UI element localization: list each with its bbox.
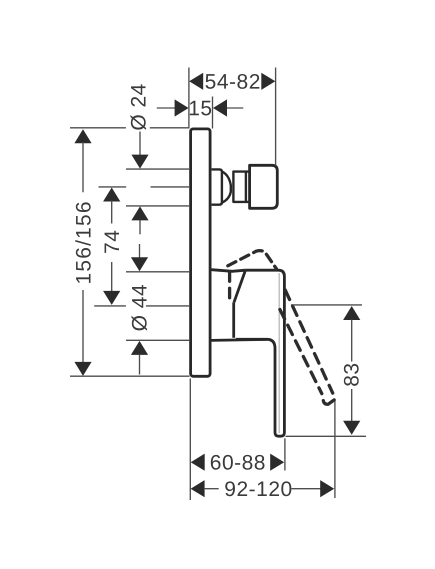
extension line plate face (15 right)	[212, 97, 214, 129]
dimension 83 top arrow	[343, 306, 360, 320]
dimension 15 right leader	[227, 107, 243, 109]
extension line plate back (bottom dims left)	[189, 379, 191, 501]
extension line dashed lever tip (92-120 right)	[334, 401, 336, 498]
dashed lever lower line	[280, 310, 322, 394]
dimension 15 right arrow	[213, 99, 227, 116]
spindle base ring	[212, 169, 222, 204]
extension line handle bottom (O44 bottom)	[126, 339, 190, 341]
svg-text:60-88: 60-88	[210, 451, 266, 474]
dimension 54-82 left arrow	[189, 73, 203, 90]
svg-text:156/156: 156/156	[73, 200, 96, 284]
svg-text:92-120: 92-120	[224, 478, 292, 501]
handle base cone right edge	[232, 302, 235, 338]
dimension 74 bottom arrow	[103, 291, 120, 305]
dimension O44 leader and down arrow	[139, 244, 141, 259]
svg-text:54-82: 54-82	[205, 71, 261, 94]
handle base cone slant edge	[234, 270, 245, 302]
dimension 156/156 bottom arrow	[74, 362, 91, 376]
dimension 83 bottom arrow	[343, 421, 360, 435]
dimension 15 left arrow	[175, 99, 189, 116]
dashed handle open position: cone top arc	[228, 251, 276, 269]
dimension 92-120 left arrow and leader	[191, 480, 205, 497]
spindle centre line	[99, 186, 191, 188]
dimension 15 left leader	[157, 107, 175, 109]
extension line plate top (156 top)	[70, 127, 190, 129]
handle centre line	[94, 305, 190, 307]
extension line handle top (O44 top)	[126, 271, 190, 273]
dimension 83 line	[351, 320, 353, 422]
extension line spindle end (54-82 right)	[275, 68, 277, 166]
dimension 54-82 right arrow	[261, 73, 275, 90]
svg-text:74: 74	[101, 230, 124, 254]
extension line plate bottom (156 bottom)	[70, 375, 190, 377]
dimension 74 line	[111, 201, 113, 293]
dashed lever upper line	[285, 290, 333, 393]
spindle cylinder	[233, 172, 249, 202]
dimension 156/156 top arrow	[74, 129, 91, 143]
wall plate (concealed body escutcheon, side view)	[191, 129, 211, 376]
extension line handle centre (83 top)	[291, 304, 362, 306]
handle base cone bottom edge	[212, 339, 267, 340]
spindle nose cone	[222, 171, 231, 202]
dimension O44 up arrow and leader	[131, 341, 148, 355]
extension line wall top (54-82 left)	[188, 68, 190, 129]
dimension O24 up arrow and leader	[131, 206, 148, 220]
spindle groove line	[245, 172, 247, 202]
svg-text:15: 15	[188, 97, 212, 120]
extension line lever front (60-88 right)	[284, 438, 286, 470]
dimension 60-88 right arrow	[270, 454, 284, 471]
dimension 92-120 right leader and arrow	[292, 488, 321, 490]
dimension O24 leader and down arrow	[139, 132, 141, 155]
extension line spindle bottom (O24 bottom)	[126, 205, 190, 207]
handle lever outline	[236, 270, 285, 436]
dimension 74 top arrow	[103, 188, 120, 202]
handle base cone top edge	[212, 270, 246, 272]
dashed lever tip arc	[323, 400, 334, 404]
dimension 156/156 line	[82, 142, 84, 362]
svg-text:83: 83	[340, 362, 363, 386]
svg-text:Ø 24: Ø 24	[128, 83, 151, 131]
dashed handle open position: cone left edge	[228, 272, 231, 300]
lever inner highlight line	[278, 273, 280, 433]
extension line spindle top (O24 top)	[126, 168, 190, 170]
spindle end cap	[250, 165, 278, 208]
extension line lever bottom (83 bottom)	[286, 435, 367, 437]
dimension 60-88 left arrow	[191, 454, 205, 471]
svg-text:Ø 44: Ø 44	[129, 284, 152, 332]
